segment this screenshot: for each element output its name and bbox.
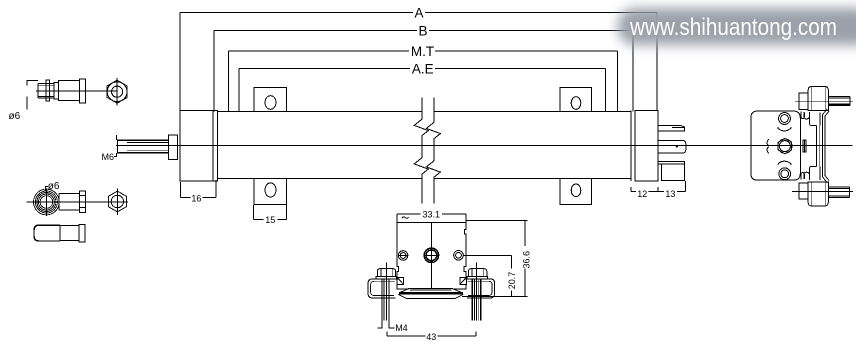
svg-text:43: 43 bbox=[426, 332, 436, 342]
svg-text:15: 15 bbox=[265, 215, 275, 225]
svg-text:M6: M6 bbox=[102, 152, 115, 162]
svg-text:13: 13 bbox=[665, 189, 675, 199]
svg-text:33.1: 33.1 bbox=[423, 209, 441, 219]
svg-text:ø6: ø6 bbox=[9, 111, 21, 122]
svg-text:36.6: 36.6 bbox=[521, 251, 531, 269]
svg-text:20.7: 20.7 bbox=[507, 272, 517, 290]
svg-text:12: 12 bbox=[637, 189, 647, 199]
svg-text:A.E: A.E bbox=[412, 62, 434, 77]
svg-text:A: A bbox=[414, 5, 423, 20]
svg-text:M.T: M.T bbox=[411, 44, 434, 59]
svg-text:ø6: ø6 bbox=[48, 181, 60, 192]
svg-text:M4: M4 bbox=[395, 323, 408, 333]
svg-text:B: B bbox=[418, 23, 427, 38]
svg-text:16: 16 bbox=[191, 193, 201, 203]
